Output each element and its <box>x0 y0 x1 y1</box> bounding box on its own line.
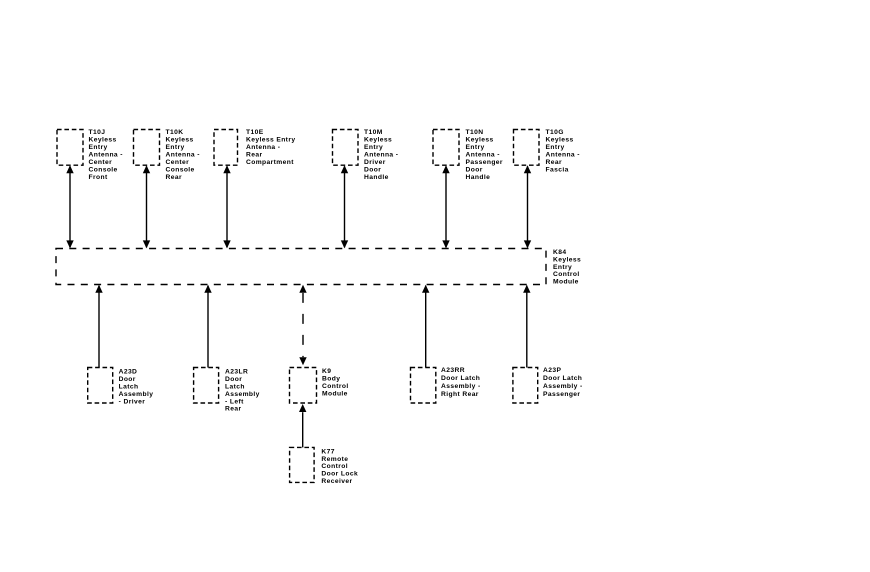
svg-text:Fascia: Fascia <box>546 166 569 173</box>
svg-text:Entry: Entry <box>553 264 572 271</box>
svg-text:T10E: T10E <box>246 129 264 136</box>
svg-text:Antenna -: Antenna - <box>166 151 200 158</box>
svg-text:Rear: Rear <box>225 406 241 413</box>
svg-text:Module: Module <box>553 279 579 286</box>
svg-text:Center: Center <box>89 159 113 166</box>
svg-text:Handle: Handle <box>466 174 491 181</box>
svg-text:Door: Door <box>364 166 381 173</box>
svg-text:Assembly -: Assembly - <box>441 383 481 390</box>
svg-text:Assembly: Assembly <box>119 391 154 398</box>
svg-text:Keyless Entry: Keyless Entry <box>246 137 295 144</box>
svg-text:K84: K84 <box>553 249 566 256</box>
svg-text:A23P: A23P <box>543 367 561 374</box>
svg-text:Door Latch: Door Latch <box>543 375 582 382</box>
svg-text:Rear: Rear <box>546 159 562 166</box>
svg-text:Keyless: Keyless <box>466 137 494 144</box>
svg-text:Antenna -: Antenna - <box>89 151 123 158</box>
svg-text:Rear: Rear <box>166 174 182 181</box>
svg-text:Center: Center <box>166 159 190 166</box>
svg-text:Body: Body <box>322 376 340 383</box>
svg-text:Passenger: Passenger <box>466 159 503 166</box>
svg-text:Handle: Handle <box>364 174 389 181</box>
svg-text:Console: Console <box>166 166 195 173</box>
svg-text:Right Rear: Right Rear <box>441 391 479 398</box>
svg-text:K77: K77 <box>321 449 334 456</box>
svg-text:Control: Control <box>322 383 349 390</box>
svg-text:Latch: Latch <box>225 384 245 391</box>
svg-text:Remote: Remote <box>321 456 348 463</box>
svg-text:Entry: Entry <box>89 144 108 151</box>
svg-text:Door Lock: Door Lock <box>321 471 358 478</box>
svg-text:A23LR: A23LR <box>225 369 248 376</box>
svg-text:T10J: T10J <box>89 129 106 136</box>
svg-text:Compartment: Compartment <box>246 159 294 166</box>
svg-text:Keyless: Keyless <box>89 137 117 144</box>
svg-text:T10G: T10G <box>546 129 564 136</box>
svg-text:Passenger: Passenger <box>543 391 580 398</box>
svg-text:Entry: Entry <box>364 144 383 151</box>
svg-text:Antenna -: Antenna - <box>364 151 398 158</box>
svg-text:T10M: T10M <box>364 129 383 136</box>
svg-text:Entry: Entry <box>166 144 185 151</box>
svg-text:Door: Door <box>225 376 242 383</box>
svg-text:Assembly -: Assembly - <box>543 383 583 390</box>
svg-text:Entry: Entry <box>466 144 485 151</box>
svg-text:Door: Door <box>466 166 483 173</box>
svg-text:Rear: Rear <box>246 151 262 158</box>
svg-text:Keyless: Keyless <box>166 137 194 144</box>
svg-text:T10K: T10K <box>166 129 184 136</box>
svg-text:Control: Control <box>321 463 348 470</box>
svg-text:Entry: Entry <box>546 144 565 151</box>
svg-text:- Left: - Left <box>225 398 244 405</box>
svg-text:Driver: Driver <box>364 159 386 166</box>
svg-text:T10N: T10N <box>466 129 484 136</box>
svg-text:Assembly: Assembly <box>225 391 260 398</box>
svg-text:Antenna -: Antenna - <box>466 151 500 158</box>
svg-text:Keyless: Keyless <box>546 137 574 144</box>
svg-text:Door Latch: Door Latch <box>441 375 480 382</box>
svg-text:Door: Door <box>119 376 136 383</box>
svg-text:K9: K9 <box>322 368 331 375</box>
svg-text:Console: Console <box>89 166 118 173</box>
svg-text:Keyless: Keyless <box>364 137 392 144</box>
svg-text:Latch: Latch <box>119 384 139 391</box>
svg-text:Antenna -: Antenna - <box>246 144 280 151</box>
svg-text:Module: Module <box>322 390 348 397</box>
svg-text:Antenna -: Antenna - <box>546 151 580 158</box>
svg-text:Front: Front <box>89 174 108 181</box>
svg-text:Control: Control <box>553 271 580 278</box>
svg-text:- Driver: - Driver <box>119 398 146 405</box>
svg-text:Receiver: Receiver <box>321 478 352 485</box>
svg-text:A23D: A23D <box>119 369 138 376</box>
svg-text:Keyless: Keyless <box>553 257 581 264</box>
svg-text:A23RR: A23RR <box>441 367 465 374</box>
